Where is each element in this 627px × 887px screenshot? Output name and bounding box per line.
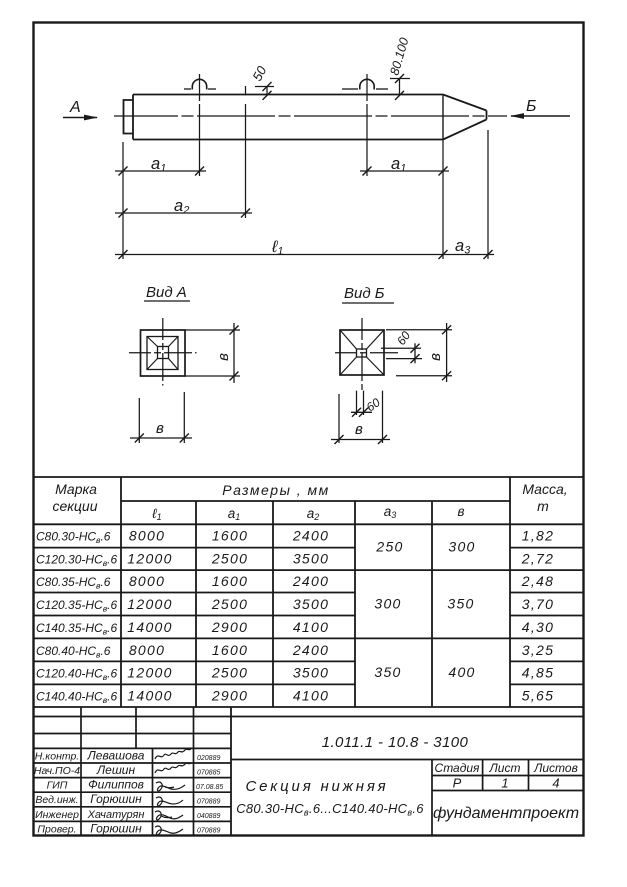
view B dim 60 bottom line: [351, 411, 372, 413]
svg-text:1: 1: [501, 776, 508, 791]
svg-text:5,65: 5,65: [522, 688, 554, 704]
signature row 5: [155, 811, 183, 820]
table bottom: [33, 706, 584, 708]
titleblock left row lines: [33, 733, 231, 735]
view B centerlines: [335, 352, 400, 354]
svg-text:3,70: 3,70: [522, 596, 554, 612]
view arrow A: [63, 117, 97, 119]
pile tip: [443, 95, 487, 111]
table row line 6: [33, 660, 355, 662]
titleblock stadia header bottom: [432, 775, 584, 777]
svg-text:Листов: Листов: [533, 761, 578, 775]
svg-text:Инженер: Инженер: [35, 809, 79, 821]
svg-text:Лешин: Лешин: [96, 763, 136, 777]
svg-text:4,30: 4,30: [522, 619, 554, 635]
svg-text:в: в: [427, 353, 444, 361]
svg-text:Масса,: Масса,: [522, 481, 567, 497]
dimension a2: [115, 212, 252, 214]
view A middle square: [147, 337, 178, 370]
lifting loop 2: [360, 79, 374, 89]
signature row 6: [155, 826, 183, 835]
svg-text:4100: 4100: [293, 619, 329, 635]
svg-text:2,48: 2,48: [521, 573, 554, 589]
svg-text:Вед.инж.: Вед.инж.: [35, 794, 78, 806]
svg-text:Б: Б: [526, 98, 536, 115]
extension line taper start: [442, 140, 444, 260]
table row line 1: [33, 547, 355, 549]
svg-text:2400: 2400: [292, 528, 329, 544]
svg-text:12000: 12000: [127, 596, 172, 612]
svg-text:ГИП: ГИП: [47, 780, 68, 792]
svg-text:1600: 1600: [212, 573, 248, 589]
view B dim 60 right extension lines: [381, 347, 421, 349]
arrowhead B: [510, 113, 524, 119]
svg-text:Нач.ПО-4: Нач.ПО-4: [34, 765, 80, 777]
svg-text:Вид Б: Вид Б: [344, 285, 385, 302]
table top: [33, 476, 584, 478]
svg-text:2500: 2500: [211, 550, 248, 566]
svg-text:1600: 1600: [212, 642, 248, 658]
svg-text:250: 250: [375, 539, 403, 555]
svg-text:секции: секции: [53, 498, 98, 514]
svg-text:Вид А: Вид А: [146, 284, 187, 301]
svg-text:Хачатурян: Хачатурян: [87, 809, 145, 821]
extension line left end: [122, 142, 124, 259]
signature row 4: [156, 797, 183, 806]
svg-text:С80.30-НСв.6: С80.30-НСв.6: [36, 530, 111, 546]
loop 2 extension line: [366, 104, 368, 176]
svg-text:3500: 3500: [293, 665, 329, 681]
svg-text:2400: 2400: [292, 573, 329, 589]
svg-text:Филиппов: Филиппов: [88, 778, 144, 792]
pile axis centerline: [114, 115, 507, 117]
svg-text:в: в: [215, 353, 232, 361]
svg-text:4: 4: [552, 776, 559, 791]
table row line 4: [33, 615, 355, 617]
view B dim b right extension lines: [386, 329, 452, 331]
view A centerlines: [129, 352, 197, 354]
view B dim b right line: [446, 323, 448, 382]
view A inner square: [158, 347, 169, 359]
view B dim b bottom line: [331, 439, 390, 441]
svg-text:Левашова: Левашова: [87, 749, 145, 763]
svg-text:Стадия: Стадия: [435, 761, 481, 775]
dimension l1 and a3: [115, 254, 494, 256]
svg-text:12000: 12000: [127, 550, 172, 566]
view A dim b bottom extension lines: [138, 398, 140, 443]
svg-text:в: в: [457, 504, 464, 519]
svg-text:300: 300: [448, 539, 475, 555]
view B taper diagonals: [340, 330, 357, 349]
svg-text:300: 300: [374, 596, 401, 612]
view A label underline: [144, 300, 190, 302]
extension line tip: [487, 130, 489, 259]
svg-text:14000: 14000: [127, 619, 172, 635]
loop 1 extension line: [199, 104, 201, 176]
svg-text:12000: 12000: [127, 665, 172, 681]
joint mark line: [245, 86, 247, 95]
view B dim b bottom extension lines: [338, 394, 340, 443]
svg-text:в: в: [156, 420, 164, 437]
svg-text:С80.40-НСв.6: С80.40-НСв.6: [36, 644, 111, 660]
titleblock doc number cell bottom: [231, 759, 584, 761]
svg-text:Лист: Лист: [489, 761, 521, 775]
table row line 3: [33, 592, 355, 594]
svg-text:С80.35-НСв.6: С80.35-НСв.6: [36, 575, 111, 591]
svg-text:350: 350: [374, 664, 401, 680]
table subheader bottom: [33, 523, 584, 525]
lifting loop 1: [192, 79, 206, 89]
loop 1 base dashed line: [184, 88, 191, 90]
svg-text:4100: 4100: [293, 688, 329, 704]
table column lines: [120, 477, 122, 707]
svg-text:4,85: 4,85: [522, 665, 554, 681]
svg-text:2400: 2400: [292, 642, 329, 658]
svg-text:020889: 020889: [197, 755, 220, 762]
titleblock top line: [33, 716, 584, 718]
svg-text:Провер.: Провер.: [37, 823, 76, 835]
view arrow B: [511, 115, 570, 117]
table header split line: [121, 500, 510, 502]
svg-text:07.08.85: 07.08.85: [196, 784, 223, 791]
svg-text:Р: Р: [453, 776, 462, 791]
view A dim b bottom line: [130, 437, 192, 439]
loop 1 centerline: [199, 74, 201, 101]
svg-text:8000: 8000: [129, 528, 165, 544]
arrowhead A: [84, 115, 98, 121]
svg-text:1.011.1 - 10.8 - 3100: 1.011.1 - 10.8 - 3100: [322, 734, 469, 751]
svg-text:фундаментпроект: фундаментпроект: [433, 805, 579, 822]
dimension 50: [255, 86, 274, 88]
signature row 2: [155, 763, 191, 773]
svg-text:С80.30-НСв.6...С140.40-НСв.6: С80.30-НСв.6...С140.40-НСв.6: [236, 801, 424, 818]
svg-text:3,25: 3,25: [522, 642, 554, 658]
loop 2 base dashed line: [342, 88, 358, 90]
svg-text:т: т: [537, 498, 549, 514]
table row line 5: [33, 637, 584, 639]
table row line 2: [33, 569, 584, 571]
loop 2 centerline: [366, 74, 368, 101]
pile body: [133, 94, 443, 96]
titleblock stadia row bottom: [432, 790, 584, 792]
view A outer square: [141, 330, 186, 376]
svg-text:2,72: 2,72: [521, 550, 554, 566]
svg-text:1600: 1600: [212, 528, 248, 544]
view B label underline: [342, 302, 394, 304]
svg-text:2500: 2500: [211, 665, 248, 681]
svg-text:2900: 2900: [211, 619, 248, 635]
table row line 7: [33, 683, 355, 685]
svg-text:1,82: 1,82: [522, 528, 554, 544]
signature row 1: [155, 749, 191, 759]
svg-text:2900: 2900: [211, 688, 248, 704]
svg-text:3500: 3500: [293, 596, 329, 612]
view A chamfer diagonals: [147, 337, 158, 347]
svg-text:Марка: Марка: [55, 481, 97, 497]
dimension a1 right: [360, 170, 449, 172]
svg-text:14000: 14000: [127, 688, 172, 704]
view B dim 60 bottom extension lines: [356, 391, 358, 415]
svg-text:А: А: [69, 99, 81, 116]
view A dim b right extension lines: [185, 329, 240, 331]
svg-text:070889: 070889: [197, 799, 220, 806]
svg-text:в: в: [355, 421, 363, 438]
view B tip flat square: [357, 349, 367, 357]
view A dim b right line: [233, 323, 235, 383]
view B outer square: [340, 330, 384, 375]
svg-text:8000: 8000: [129, 642, 165, 658]
dimension a1 left: [115, 170, 206, 172]
svg-text:2500: 2500: [211, 596, 248, 612]
svg-text:Горюшин: Горюшин: [90, 821, 142, 835]
svg-text:040889: 040889: [197, 813, 220, 820]
dimension 80.100: [390, 78, 410, 80]
svg-text:070889: 070889: [197, 828, 220, 835]
svg-text:Горюшин: Горюшин: [90, 792, 142, 806]
signature row 3: [156, 782, 185, 791]
svg-text:070885: 070885: [197, 770, 220, 777]
svg-text:Секция нижняя: Секция нижняя: [246, 778, 389, 795]
titleblock column lines: [80, 708, 82, 837]
svg-text:Н.контр.: Н.контр.: [35, 751, 79, 763]
svg-text:350: 350: [447, 596, 474, 612]
svg-text:400: 400: [448, 664, 475, 680]
svg-text:3500: 3500: [293, 550, 329, 566]
svg-text:Размеры , мм: Размеры , мм: [222, 482, 330, 498]
pile left end cap: [124, 100, 134, 134]
svg-text:8000: 8000: [129, 573, 165, 589]
view B dim 60 right line: [414, 343, 416, 363]
